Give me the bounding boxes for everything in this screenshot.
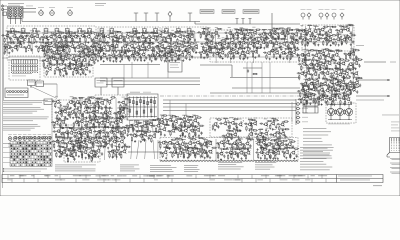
resistor R70: [75, 47, 76, 53]
wire: [221, 48, 226, 51]
wire: [246, 48, 251, 51]
transistor Q98: [261, 40, 266, 44]
transistor Q178: [354, 71, 359, 75]
junction: [157, 37, 158, 38]
transistor Q165: [327, 61, 332, 65]
bus wire: [106, 84, 200, 86]
ground: [82, 147, 84, 149]
junction: [103, 36, 104, 37]
ground: [69, 147, 71, 149]
capacitor C341: [120, 132, 122, 136]
wire: [240, 29, 245, 32]
capacitor C286: [359, 84, 361, 88]
resistor R111: [126, 50, 132, 51]
junction: [306, 83, 307, 84]
transistor Q118: [301, 29, 306, 33]
junction: [350, 65, 351, 66]
junction: [274, 44, 275, 45]
junction: [58, 119, 59, 120]
junction: [100, 57, 101, 58]
junction: [109, 104, 110, 105]
junction: [61, 110, 62, 111]
value label: [18, 30, 21, 33]
value label: [336, 48, 339, 51]
capacitor C338: [97, 131, 101, 133]
wire: [96, 50, 101, 53]
transistor Q131: [342, 37, 347, 41]
capacitor C298: [54, 111, 58, 113]
resistor R281: [305, 59, 311, 60]
junction: [313, 65, 314, 66]
junction: [295, 40, 296, 41]
resistor R17: [66, 36, 67, 42]
resistor R402: [58, 137, 64, 138]
resistor R154: [297, 30, 303, 31]
value label: [121, 105, 125, 108]
capacitor C371: [107, 151, 111, 153]
capacitor C370: [101, 152, 103, 156]
transistor Q14: [86, 34, 91, 38]
transistor Q180: [309, 81, 314, 85]
capacitor C45: [9, 46, 13, 48]
wire: [108, 108, 113, 111]
value label: [58, 144, 61, 147]
resistor R199: [284, 48, 290, 49]
wire: [102, 43, 107, 46]
wire: [91, 108, 96, 111]
wire: [229, 48, 234, 51]
transistor Q242: [71, 149, 76, 153]
value label: [99, 96, 103, 99]
resistor R430: [88, 154, 89, 160]
resistor R410: [86, 143, 87, 149]
capacitor C273: [349, 75, 351, 79]
resistor R346: [66, 108, 72, 109]
value label: [71, 126, 75, 129]
resistor R185: [219, 53, 220, 59]
wire: [187, 42, 192, 45]
capacitor C218: [48, 57, 52, 59]
capacitor C270: [330, 72, 334, 74]
capacitor C24: [118, 37, 120, 41]
transistor Q215: [105, 119, 110, 123]
value label: [81, 135, 85, 138]
junction: [14, 39, 15, 40]
wire: [90, 55, 95, 58]
value label: [328, 49, 332, 52]
junction: [235, 54, 236, 55]
resistor R20: [79, 37, 80, 43]
resistor R184: [218, 49, 224, 50]
capacitor C327: [53, 130, 57, 132]
wire: [141, 42, 146, 45]
transistor Q211: [79, 119, 84, 123]
wire: [19, 33, 24, 36]
capacitor C308: [100, 112, 104, 114]
resistor R311: [353, 73, 354, 79]
transistor Q130: [336, 37, 341, 41]
capacitor C72: [145, 48, 147, 52]
ground: [206, 48, 208, 50]
capacitor C102: [159, 54, 163, 56]
resistor R235: [88, 53, 89, 59]
wire: [115, 41, 120, 44]
transistor Q234: [87, 140, 92, 144]
value label: [100, 125, 103, 128]
resistor R110: [121, 55, 122, 61]
resistor R107: [110, 57, 111, 63]
resistor R390: [87, 132, 88, 138]
resistor R422: [59, 146, 65, 147]
resistor R427: [80, 146, 86, 147]
ground: [119, 117, 121, 119]
capacitor C9: [39, 37, 41, 41]
resistor R387: [79, 129, 85, 130]
ground: [119, 60, 121, 62]
resistor R314: [308, 84, 309, 90]
junction: [82, 134, 83, 135]
wire: [315, 60, 320, 63]
ground: [95, 126, 97, 128]
value label: [81, 45, 84, 48]
capacitor C282: [337, 81, 341, 83]
resistor R407: [77, 138, 83, 139]
junction: [85, 141, 86, 142]
detector section box: [210, 30, 305, 62]
transistor Q25: [157, 34, 162, 38]
value label: [57, 106, 60, 109]
junction: [47, 50, 48, 51]
resistor R115: [138, 49, 144, 50]
capacitor C206: [352, 40, 354, 44]
resistor R103: [95, 55, 96, 61]
resistor R168: [247, 43, 248, 49]
capacitor C213: [85, 53, 87, 57]
value label: [92, 106, 96, 109]
wire: [68, 138, 73, 141]
resistor R232: [65, 46, 71, 47]
resistor R90: [154, 47, 155, 53]
value label: [217, 37, 221, 40]
transistor Q207: [120, 110, 125, 114]
value label: [124, 48, 128, 51]
ground: [161, 51, 163, 53]
junction: [59, 152, 60, 153]
junction: [273, 43, 274, 44]
resistor R406: [73, 143, 74, 149]
transistor Q19: [118, 35, 123, 39]
transistor Q171: [306, 71, 311, 75]
resistor R64: [57, 47, 58, 53]
wire: [113, 137, 118, 140]
capacitor C144: [234, 45, 236, 49]
resistor R318: [328, 83, 329, 89]
ground: [254, 56, 256, 58]
transistor Q232: [74, 140, 79, 144]
wire: [62, 147, 67, 150]
junction: [282, 54, 283, 55]
resistor R148: [275, 28, 281, 29]
value label: [319, 66, 323, 69]
transistor Q220: [69, 131, 74, 135]
capacitor C17: [70, 35, 74, 37]
resistor R243: [66, 55, 72, 56]
junction: [77, 70, 78, 71]
capacitor C26: [123, 38, 125, 42]
junction: [112, 99, 113, 100]
IF transformer T4: [44, 28, 48, 34]
resistor R200: [287, 55, 288, 61]
value label: [45, 53, 49, 56]
resistor R337: [98, 99, 104, 100]
capacitor C141: [218, 42, 222, 44]
wire: [35, 32, 40, 35]
transistor Q17: [105, 34, 110, 38]
ground: [168, 60, 170, 62]
wire: [123, 42, 128, 45]
junction: [156, 51, 157, 52]
wire: [49, 32, 54, 35]
junction: [86, 104, 87, 105]
junction: [105, 121, 106, 122]
capacitor C261: [338, 62, 342, 64]
value label: [313, 24, 317, 27]
wire: [303, 35, 308, 38]
transistor Q52: [146, 45, 151, 49]
resistor R116: [140, 56, 141, 62]
ground: [123, 136, 125, 138]
junction: [51, 46, 52, 47]
wire: [314, 69, 319, 72]
transistor Q23: [146, 35, 151, 39]
transistor Q45: [101, 45, 106, 49]
junction: [96, 106, 97, 107]
transistor Q183: [329, 80, 334, 84]
value label: [115, 116, 119, 119]
resistor R204: [306, 31, 307, 37]
ground: [80, 73, 82, 75]
wire: [304, 79, 309, 82]
value label: [134, 29, 138, 32]
value label: [83, 53, 87, 56]
resistor R280: [301, 65, 302, 71]
resistor R106: [105, 50, 111, 51]
resistor R140: [244, 34, 245, 40]
capacitor C203: [341, 41, 343, 45]
ground: [112, 60, 114, 62]
ground: [256, 47, 258, 49]
junction: [6, 38, 7, 39]
ground: [97, 51, 99, 53]
capacitor C91: [113, 55, 117, 57]
junction: [222, 44, 223, 45]
junction: [80, 62, 81, 63]
ground: [148, 42, 150, 44]
capacitor C87: [100, 56, 102, 60]
wire: [93, 98, 97, 160]
transistor Q176: [338, 72, 343, 76]
capacitor C5: [23, 38, 25, 42]
wire: [81, 98, 82, 160]
value label: [302, 48, 306, 51]
antenna stub: [241, 19, 244, 25]
transistor Q172: [313, 72, 318, 76]
junction: [274, 33, 275, 34]
antenna A4: [188, 13, 192, 22]
wire: [39, 43, 44, 46]
transistor Q160: [351, 52, 356, 56]
wire: [314, 26, 319, 29]
resistor R9: [34, 38, 35, 44]
resistor R43: [160, 31, 166, 32]
antenna stub: [235, 19, 238, 25]
IF transformer T12: [142, 28, 146, 34]
resistor R233: [80, 52, 81, 58]
resistor R341: [120, 104, 121, 110]
transistor Q159: [347, 52, 352, 56]
resistor R202: [294, 49, 300, 50]
resistor R135: [226, 35, 227, 41]
capacitor C132: [290, 35, 292, 39]
resistor R339: [103, 99, 109, 100]
capacitor C54: [56, 48, 58, 52]
resistor R352: [89, 114, 90, 120]
wire: [81, 31, 86, 34]
wire: [55, 64, 60, 67]
value label: [96, 105, 99, 108]
capacitor C15: [64, 36, 68, 38]
wire: [6, 32, 9, 54]
resistor R160: [221, 44, 222, 50]
capacitor C294: [97, 102, 101, 104]
wire: [230, 29, 232, 63]
value label: [76, 135, 79, 138]
AF preamp box: [44, 54, 93, 77]
capacitor C283: [345, 84, 347, 88]
capacitor C210: [58, 50, 62, 52]
capacitor C333: [81, 134, 83, 138]
top rail wire: [22, 21, 200, 23]
resistor R304: [328, 69, 334, 70]
resistor R22: [85, 37, 86, 43]
capacitor C321: [96, 121, 100, 123]
ground: [101, 107, 103, 109]
resistor R370: [93, 123, 94, 129]
ground: [78, 137, 80, 139]
transistor Q200: [77, 110, 82, 114]
wire: [335, 50, 340, 53]
wire: [324, 34, 329, 37]
wire: [306, 50, 307, 86]
wire: [111, 51, 116, 54]
junction: [57, 103, 58, 104]
resistor R347: [70, 113, 71, 119]
value label: [114, 39, 118, 42]
junction: [339, 75, 340, 76]
junction: [85, 35, 86, 36]
value label: [75, 115, 79, 118]
transistor Q168: [348, 62, 353, 66]
junction: [174, 45, 175, 46]
junction: [112, 38, 113, 39]
resistor R355: [102, 113, 103, 119]
junction: [72, 43, 73, 44]
resistor R149: [278, 34, 279, 40]
transistor Q47: [114, 44, 119, 48]
transistor Q44: [97, 44, 102, 48]
variable capacitor CV2: [50, 9, 55, 15]
resistor R182: [207, 53, 208, 59]
resistor R84: [128, 47, 129, 53]
resistor R291: [339, 64, 340, 70]
junction: [339, 32, 340, 33]
transistor Q209: [61, 120, 66, 124]
wire: [121, 107, 126, 110]
transistor Q179: [303, 82, 308, 86]
value label: [83, 126, 87, 129]
wire: [307, 26, 312, 29]
capacitor C344: [52, 140, 56, 142]
capacitor C13: [53, 35, 57, 37]
transistor Q235: [94, 139, 99, 143]
junction: [45, 51, 46, 52]
transistor Q184: [334, 82, 339, 86]
junction: [93, 38, 94, 39]
capacitor C82: [184, 48, 186, 52]
value label: [84, 145, 88, 148]
resistor R147: [271, 33, 272, 39]
capacitor C204: [339, 38, 343, 40]
capacitor C69: [111, 45, 115, 47]
capacitor C92: [119, 54, 123, 56]
resistor R322: [340, 82, 341, 88]
value label: [201, 45, 204, 48]
resistor R7: [25, 33, 31, 34]
resistor R403: [59, 142, 60, 148]
wire: [302, 59, 307, 62]
resistor R219: [326, 35, 332, 36]
band rail wire: [8, 56, 300, 58]
resistor R302: [322, 68, 328, 69]
value label: [110, 145, 113, 148]
transistor Q61: [102, 53, 107, 57]
junction: [348, 30, 349, 31]
resistor R36: [139, 38, 140, 44]
value label: [249, 36, 252, 39]
transistor Q50: [136, 45, 141, 49]
capacitor C235: [74, 67, 78, 69]
capacitor C10: [40, 36, 44, 38]
capacitor C317: [84, 124, 86, 128]
resistor R151: [284, 34, 285, 40]
wire: [56, 137, 61, 140]
value label: [112, 135, 115, 138]
transistor Q74: [186, 52, 191, 56]
capacitor C320: [91, 119, 95, 121]
capacitor C76: [156, 45, 160, 47]
ground: [84, 137, 86, 139]
capacitor C269: [330, 75, 332, 79]
capacitor C155: [271, 42, 275, 44]
value label: [91, 145, 94, 148]
capacitor C335: [86, 134, 88, 138]
wire: [74, 32, 79, 35]
resistor R207: [323, 26, 329, 27]
capacitor C34: [154, 35, 158, 37]
ground: [302, 60, 304, 62]
resistor R359: [120, 112, 121, 118]
capacitor C6: [19, 35, 23, 37]
